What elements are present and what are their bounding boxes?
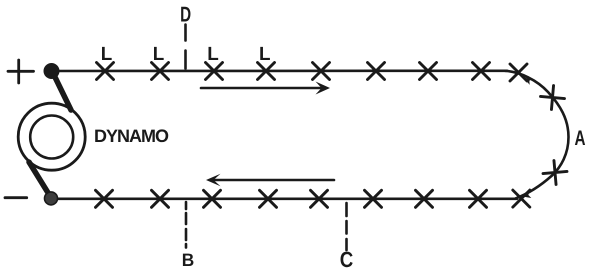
svg-text:D: D [180,3,191,27]
svg-text:DYNAMO: DYNAMO [94,126,169,146]
svg-text:L: L [101,44,113,65]
svg-text:L: L [207,44,219,65]
svg-text:C: C [340,247,354,269]
svg-text:B: B [182,250,195,269]
svg-text:A: A [575,127,586,150]
svg-text:L: L [153,44,165,65]
svg-text:L: L [259,44,271,65]
